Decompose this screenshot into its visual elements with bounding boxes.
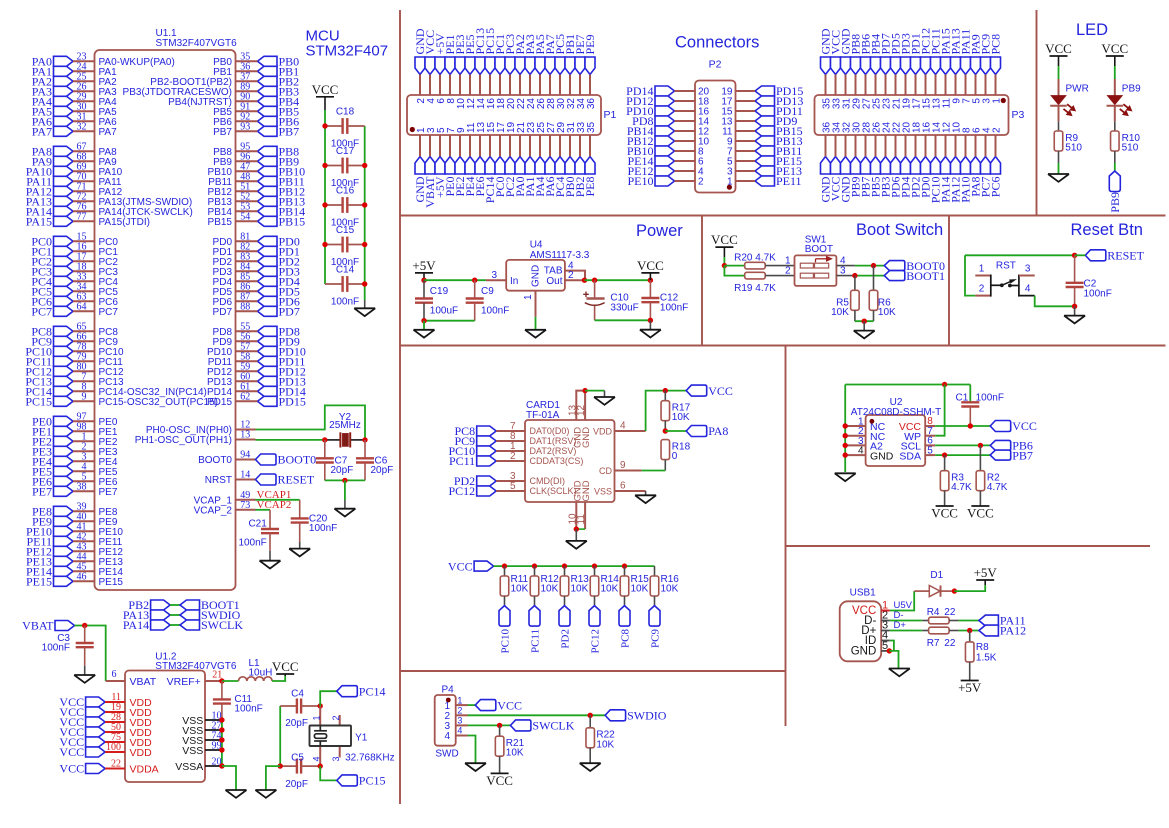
port PB3 pin 89: [123, 82, 300, 99]
wire crystal caps bottom rail: [325, 479, 365, 481]
svg-text:3: 3: [331, 756, 341, 761]
port PE14 pin 45: [26, 562, 123, 579]
svg-text:+5V: +5V: [958, 680, 982, 695]
svg-text:R20 4.7K: R20 4.7K: [734, 253, 776, 264]
port PD6 pin 87: [213, 292, 300, 309]
TF top GND pins 13 12: [567, 391, 587, 420]
USB D- wire to R4: [881, 620, 890, 622]
ground TF VSS: [635, 495, 656, 503]
port PD13 pin 60: [207, 372, 306, 389]
junction C9 top: [472, 278, 477, 283]
svg-text:CLK(SCLK): CLK(SCLK): [530, 486, 577, 496]
wire R4 to PA11: [959, 620, 979, 622]
jumper PB2 to BOOT1: [128, 598, 239, 612]
port PA13 pin 72: [26, 192, 192, 209]
USB connector USB1 box: [840, 588, 882, 662]
power VCC decoupling: [316, 96, 334, 98]
svg-text:BOOT0: BOOT0: [198, 455, 232, 466]
junction C12 top: [648, 278, 653, 283]
port PC0 pin 15: [31, 232, 118, 249]
svg-text:6: 6: [620, 481, 626, 492]
svg-text:PA8: PA8: [708, 424, 728, 438]
svg-text:32: 32: [77, 122, 87, 133]
P1 bottom pin 7 port PE0: [443, 127, 457, 197]
svg-text:C14: C14: [336, 265, 355, 276]
svg-text:C1: C1: [956, 393, 969, 404]
port PA0 pin 23: [32, 52, 175, 69]
svg-text:C5: C5: [291, 753, 304, 764]
svg-text:22: 22: [944, 638, 956, 649]
svg-text:DAT1(RSV): DAT1(RSV): [530, 436, 577, 446]
svg-text:22: 22: [944, 607, 956, 618]
P3 bottom pin 30 port PB9: [849, 121, 863, 197]
wire D1 to +5V: [954, 585, 985, 591]
svg-text:10K: 10K: [596, 739, 614, 750]
P3 top pin 35 port GND: [819, 28, 833, 109]
port PA2 pin 25: [32, 72, 117, 89]
svg-text:64: 64: [77, 302, 87, 313]
svg-text:PB7: PB7: [213, 127, 232, 138]
port PC8 flag pullup: [619, 606, 632, 648]
capacitor C20 100nF: [291, 514, 338, 543]
port PD11 pin 58: [208, 352, 306, 369]
junction Out: [582, 278, 587, 283]
wire vcc to LED LED2: [1114, 66, 1116, 79]
port PD5 pin 86: [213, 282, 300, 299]
junction left rail C18: [322, 123, 327, 128]
P2 right pin 5 port PE15: [727, 154, 802, 168]
wire VSSA to gnd: [222, 766, 236, 790]
switch SW1 BOOT: [795, 234, 837, 286]
P1 top pin 32 port PB1: [563, 34, 577, 109]
P1 top pin 12 port PE5: [463, 34, 477, 109]
TF port PC11 pin 2: [449, 451, 583, 468]
net VCAP1 pin 49: [194, 489, 292, 506]
port PB11 pin 48: [208, 172, 304, 189]
junction boot gnd: [862, 319, 867, 324]
resistor R16 10K: [650, 566, 679, 596]
svg-text:2: 2: [991, 127, 1002, 133]
port VCC VDD pin 75: [59, 732, 152, 749]
svg-text:R19 4.7K: R19 4.7K: [734, 283, 776, 294]
svg-text:2: 2: [698, 177, 704, 188]
port PC14 pin 8: [25, 382, 207, 399]
svg-text:VCC: VCC: [967, 506, 994, 521]
ground power input: [414, 330, 435, 338]
ground U4: [525, 330, 546, 338]
svg-text:AMS1117-3.3: AMS1117-3.3: [530, 250, 590, 261]
svg-text:PWR: PWR: [1066, 84, 1089, 95]
U2 left pins 1-4: [845, 416, 865, 456]
capacitor C16 100nF: [325, 186, 365, 229]
junction C3: [82, 623, 87, 628]
port PA1 pin 24: [32, 62, 117, 79]
svg-text:C19: C19: [430, 286, 449, 297]
junction D1 cathode: [952, 588, 957, 593]
port PA7 pin 32: [32, 122, 117, 139]
port PC13 pin 7: [25, 372, 124, 389]
P3 bottom pin 16 port PD0: [919, 121, 933, 197]
junction R11: [502, 563, 507, 568]
svg-text:C17: C17: [336, 146, 355, 157]
svg-text:4.7K: 4.7K: [987, 482, 1008, 493]
port VCC P4 flag: [475, 700, 496, 711]
junction C5 left: [278, 763, 283, 768]
port PA4 pin 29: [32, 92, 117, 109]
junction crystal gnd: [342, 478, 347, 483]
jumper PA14 to SWCLK: [123, 618, 243, 632]
svg-text:VCC: VCC: [931, 506, 958, 521]
U1.2 VSSA pin 20: [175, 756, 222, 772]
junction left rail C15: [322, 242, 327, 247]
svg-text:PD7: PD7: [279, 305, 300, 319]
P3 bottom pin 24 port PB3: [879, 121, 893, 197]
section border TF/U2 divider: [785, 346, 787, 727]
svg-text:RST: RST: [996, 261, 1016, 272]
wire R19 to SW1 pin2: [765, 275, 794, 277]
P3 bottom pin 22 port PD6: [889, 121, 903, 197]
P2 right pin 1 port PE11: [727, 174, 802, 188]
svg-text:PC14: PC14: [359, 684, 386, 698]
svg-text:VDDA: VDDA: [130, 763, 159, 775]
wire R20 to SW1 pin1: [765, 265, 794, 267]
pin PH0-OSC_IN pin 12: [146, 420, 256, 436]
resistor R5 10K: [831, 276, 859, 318]
ground reset: [1064, 316, 1085, 324]
svg-text:100nF: 100nF: [481, 305, 509, 316]
ground P4: [465, 763, 486, 771]
capacitor C4 20pF: [280, 689, 320, 729]
port PD2 flag pullup: [559, 606, 572, 649]
svg-text:11: 11: [576, 514, 587, 525]
diode D1: [914, 570, 954, 597]
wire C4 left rail: [279, 706, 281, 766]
wire R7 to PA12: [959, 630, 979, 632]
P1 top pin 20 port PC3: [503, 34, 517, 109]
wire vcc to LED LED1: [1058, 66, 1060, 79]
svg-text:PH1-OSC_OUT(PH1): PH1-OSC_OUT(PH1): [135, 435, 232, 446]
TF VDD pin 4 wire: [615, 430, 646, 432]
svg-text:C16: C16: [336, 186, 355, 197]
svg-text:VCC: VCC: [637, 258, 664, 273]
ground C3: [74, 675, 95, 683]
port PD7 pin 88: [213, 302, 300, 319]
svg-text:VCC: VCC: [1101, 41, 1128, 56]
LED LED2: [1107, 84, 1142, 116]
svg-text:2: 2: [568, 270, 574, 281]
wire +5V rail to U4 In: [424, 279, 486, 281]
junction C10 top: [592, 278, 597, 283]
capacitor C17 100nF: [325, 146, 365, 189]
P2 left pin 12 port PB14: [627, 124, 710, 138]
svg-text:3: 3: [840, 266, 846, 277]
svg-text:U4: U4: [530, 239, 543, 250]
port PA6 pin 31: [32, 112, 117, 129]
svg-text:VBAT: VBAT: [22, 619, 54, 633]
junction C19 bottom: [421, 318, 426, 323]
P3 top pin 17 port PD1: [909, 33, 923, 109]
svg-text:In: In: [510, 276, 518, 287]
port PE15 pin 46: [26, 572, 123, 589]
port PE6 pin 5: [32, 472, 118, 489]
junction VREF: [219, 678, 224, 683]
port VCC VDD pin 50: [59, 722, 152, 739]
port PC2 pin 17: [31, 252, 118, 269]
U1.2 VSS pins: [182, 710, 222, 726]
capacitor C21 100nF: [238, 519, 279, 551]
svg-text:VCC: VCC: [708, 384, 733, 398]
P3 top pin 19 port PD3: [899, 33, 913, 109]
port PD14 pin 61: [207, 382, 306, 399]
port PB10 pin 47: [208, 162, 306, 179]
svg-text:10K: 10K: [511, 584, 529, 595]
capacitor C3 100nF: [42, 626, 94, 666]
svg-text:1: 1: [457, 695, 462, 705]
svg-text:10K: 10K: [541, 584, 559, 595]
P3 top pin 29 port PB8: [849, 34, 863, 109]
svg-text:PE15: PE15: [99, 577, 124, 588]
junction vcc boot: [722, 263, 727, 268]
svg-text:Out: Out: [546, 276, 562, 287]
resistor R3 4.7K: [940, 455, 972, 493]
svg-text:20pF: 20pF: [331, 465, 354, 476]
P3 top pin 3 port PC9: [979, 34, 993, 104]
section border horizontal under connectors: [400, 215, 1166, 217]
svg-text:P4: P4: [442, 684, 455, 695]
svg-text:4.7K: 4.7K: [951, 482, 972, 493]
P4 pin 1 wire to VCC: [456, 704, 468, 706]
P1 top pin 36 port PE9: [583, 34, 597, 109]
svg-text:P2: P2: [709, 59, 722, 71]
svg-text:PC11: PC11: [449, 454, 475, 468]
op-amp U1.1 box: [95, 50, 236, 590]
wire crystal gnd: [266, 766, 280, 790]
svg-text:100nF: 100nF: [234, 704, 262, 715]
port PB5 pin 91: [213, 102, 299, 119]
ground C20: [289, 549, 310, 557]
resistor R17 10K: [661, 391, 691, 424]
svg-text:VDD: VDD: [130, 747, 153, 759]
P1 bottom pin 9 port PE2: [453, 127, 467, 197]
svg-text:12: 12: [576, 404, 587, 416]
P1 pin1 dot: [410, 127, 415, 132]
svg-text:32.768KHz: 32.768KHz: [345, 753, 394, 764]
P3 top pin 31 port GND: [839, 28, 853, 109]
P1 bottom pin 11 port PE4: [463, 122, 477, 196]
TF VSS pin 6 wire: [615, 490, 646, 492]
port RESET flag reset section: [1085, 250, 1106, 261]
wire to gnd input: [423, 321, 425, 330]
junction Y1 pin4: [318, 763, 323, 768]
ground decoupling ladder: [354, 308, 375, 316]
svg-text:VCC: VCC: [1045, 41, 1072, 56]
capacitor C9 100nF: [466, 280, 510, 321]
port VCC U2 flag: [990, 421, 1011, 432]
svg-text:6: 6: [112, 669, 117, 680]
port PC15 flag: [337, 775, 358, 786]
section border Boot/Reset divider: [948, 216, 950, 346]
svg-text:PB15: PB15: [279, 215, 306, 229]
resistor R2 4.7K: [976, 445, 1008, 493]
EEPROM U2 box: [851, 397, 941, 466]
power VCC R21: [491, 772, 509, 774]
svg-text:1: 1: [991, 98, 1002, 104]
P4 inner numbers: [444, 701, 450, 742]
port PC10 pin 78: [25, 342, 124, 359]
wire L1 to VCC: [272, 676, 285, 681]
port PC11 pin 79: [26, 352, 123, 369]
svg-text:PA15: PA15: [26, 215, 52, 229]
svg-text:PC9: PC9: [650, 629, 662, 648]
svg-text:PB9: PB9: [1108, 192, 1122, 213]
svg-text:DAT2(RSV): DAT2(RSV): [530, 446, 577, 456]
port PD15 pin 62: [207, 392, 306, 409]
port PC9 flag pullup: [649, 606, 662, 648]
svg-text:54: 54: [240, 212, 250, 223]
svg-text:PC11: PC11: [530, 629, 542, 653]
power VCC L1: [276, 673, 294, 675]
svg-text:510: 510: [1065, 143, 1082, 154]
P2 right pin 19 port PD15: [721, 84, 803, 98]
port PC5 pin 34: [31, 282, 118, 299]
P3 top pin 25 port PB4: [869, 34, 883, 109]
port PB13 pin 52: [208, 192, 306, 209]
connector P1 box: [407, 95, 601, 135]
port PA14 pin 76: [26, 202, 193, 219]
svg-text:C18: C18: [336, 107, 355, 118]
P2 right pin 13 port PD9: [721, 114, 797, 128]
junction C1 bottom: [968, 423, 973, 428]
TF port PD2 pin 3: [454, 471, 565, 488]
port PA8 pin 67: [32, 142, 117, 159]
P2 right pin 7 port PB11: [727, 144, 802, 158]
P3 top pin 23 port PD7: [879, 33, 893, 109]
port PA3 pin 26: [32, 82, 117, 99]
svg-text:14: 14: [240, 470, 250, 481]
U4 pin 4 TAB wire: [565, 271, 585, 281]
P1 top pin 2 port GND: [413, 28, 427, 103]
svg-text:PC10: PC10: [500, 629, 512, 654]
junction R8 top: [967, 628, 972, 633]
wire to PC14: [320, 691, 337, 706]
junction R14: [592, 563, 597, 568]
wire boot pulldown rail: [854, 310, 856, 321]
junction C12 bottom: [648, 318, 653, 323]
svg-text:20pF: 20pF: [285, 779, 308, 790]
P3 top pin 1 port PC8: [989, 34, 1003, 104]
svg-text:510: 510: [1122, 143, 1139, 154]
ground Y2: [334, 509, 355, 517]
port PD10 pin 57: [207, 342, 306, 359]
svg-text:10K: 10K: [506, 748, 524, 759]
junction TF bottom gnd: [574, 526, 579, 531]
capacitor C18 100nF: [325, 107, 365, 150]
P3 bottom pin 28 port PB7: [859, 121, 873, 197]
net VCAP2 pin 73: [194, 499, 292, 516]
svg-text:9: 9: [82, 392, 87, 403]
resistor R19 4.7K: [734, 272, 776, 294]
port PD4 pin 85: [213, 272, 300, 289]
P3 bottom pin 10 port PA12: [949, 121, 963, 202]
wire decoupling left rail: [324, 126, 326, 284]
wire vcc to R19: [724, 266, 744, 276]
svg-text:PA15(JTDI): PA15(JTDI): [99, 217, 151, 228]
ground boot switch: [854, 331, 875, 339]
svg-text:GND: GND: [581, 427, 592, 448]
junction crystal left: [322, 437, 327, 442]
svg-text:PC12: PC12: [590, 629, 602, 653]
section border Power/Boot divider: [701, 216, 703, 346]
port PC11 flag pullup: [529, 606, 542, 653]
resistor R9 510: [1054, 131, 1082, 154]
svg-text:1: 1: [312, 715, 322, 720]
P1 top pin 34 port PE7: [573, 34, 587, 109]
wire SW1 pin3 to BOOT1: [836, 275, 855, 277]
port PB1 pin 36: [213, 62, 299, 79]
junction usb gnd: [887, 648, 892, 653]
P3 top pin 11 port PA15: [939, 28, 953, 108]
ground power output: [640, 330, 661, 338]
svg-text:VCC: VCC: [448, 559, 473, 573]
P2 left pin 16 port PD10: [626, 104, 709, 118]
svg-text:36: 36: [586, 98, 597, 110]
svg-text:2: 2: [979, 284, 985, 295]
resistor R7 22: [927, 627, 956, 649]
power VCC LED2: [1106, 55, 1124, 57]
P1 top pin 10 port PE3: [453, 34, 467, 109]
port PA8 flag: [686, 426, 707, 437]
wire VCAP2 to C21: [256, 509, 271, 511]
svg-text:PE7: PE7: [99, 487, 118, 498]
svg-text:VDD: VDD: [593, 427, 613, 437]
svg-text:5: 5: [927, 445, 933, 456]
svg-text:100nF: 100nF: [42, 643, 70, 654]
P3 bottom pin 20 port PD4: [899, 121, 913, 197]
P2 left pin 8 port PB10: [627, 144, 704, 158]
junction R12: [532, 563, 537, 568]
P1 top pin 18 port PC1: [493, 34, 507, 109]
net U5V wire: [881, 610, 890, 612]
svg-text:100nF: 100nF: [331, 297, 359, 308]
ground TF bottom: [566, 541, 587, 549]
port PB6 pin 92: [213, 112, 299, 129]
port PB4 pin 90: [168, 92, 299, 109]
ground C21: [260, 561, 281, 569]
svg-text:R7: R7: [927, 638, 940, 649]
port PB14 pin 53: [208, 202, 306, 219]
port PE0 pin 97: [32, 412, 118, 429]
port PA10 pin 69: [26, 162, 123, 179]
svg-text:VREF+: VREF+: [167, 676, 201, 688]
P3 top pin 13 port PC11: [929, 28, 943, 109]
P1 bottom pin 27 port PA6: [543, 121, 557, 196]
P1 top pin 16 port PC15: [483, 28, 497, 109]
U4 pin 1 GND wire: [535, 291, 537, 317]
port VCC TF flag: [686, 385, 707, 396]
resistor R8 1.5K: [965, 631, 996, 664]
junction Y1 pin1: [318, 703, 323, 708]
resistor R20 4.7K: [734, 253, 776, 269]
svg-text:10K: 10K: [878, 307, 896, 318]
P2 left pin 14 port PD8: [632, 114, 709, 128]
resistor R12 10K: [530, 566, 559, 596]
wire vcc to R20: [724, 265, 744, 267]
TF port PC8 pin 7: [455, 421, 570, 438]
port BOOT0 pin 94: [198, 450, 316, 467]
port VCC VDD pin 100: [59, 742, 152, 759]
svg-text:GND: GND: [531, 265, 542, 287]
svg-text:STM32F407VGT6: STM32F407VGT6: [156, 38, 238, 49]
